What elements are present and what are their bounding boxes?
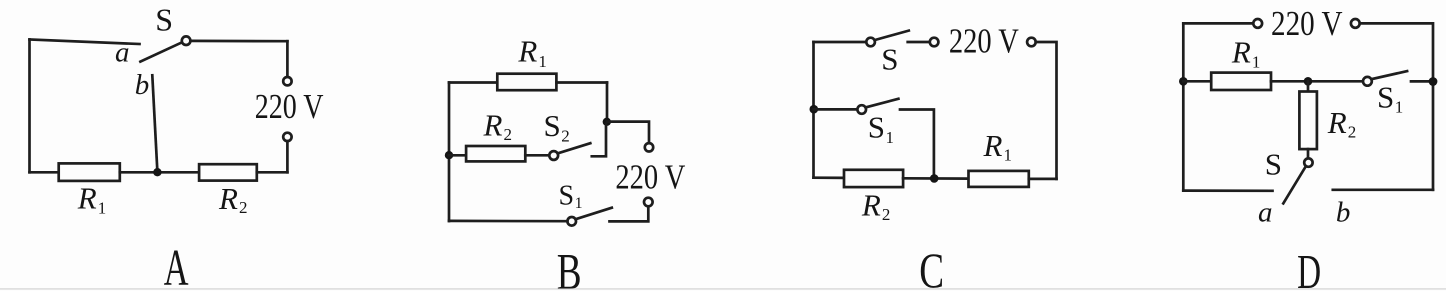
svg-text:A: A [164, 240, 189, 291]
junction dot (D) left [1179, 77, 1188, 86]
switch S (A) blade [140, 42, 182, 61]
source 220V (D) left terminal [1253, 19, 1262, 28]
resistor R2 (B) [466, 146, 525, 161]
wire: B top-left horizontal [449, 81, 497, 84]
switch S (D) pivot [1304, 158, 1312, 166]
junction dot (C) bottom [930, 174, 939, 183]
svg-text:R1: R1 [1231, 34, 1260, 71]
switch S (A) pivot [182, 36, 191, 45]
svg-text:b: b [1336, 197, 1351, 229]
svg-text:220 V: 220 V [255, 88, 324, 126]
resistor R1 (B) [497, 74, 556, 91]
wire: B R2 to S2 segment [525, 154, 549, 157]
wire: A left vertical [28, 40, 31, 173]
source 220V (B) bottom terminal [644, 198, 653, 207]
wire: D R2 top lead [1307, 81, 1310, 91]
wire: C bottom middle segment [903, 177, 968, 180]
source 220V (D) right terminal [1351, 19, 1360, 28]
junction dot (C) on left vertical [810, 105, 819, 114]
wire: C S1 contact bracket down to bottom row [900, 110, 934, 179]
junction dot (A) [153, 168, 161, 176]
wire: A top-left horizontal to contact a [30, 40, 140, 45]
switch S1 (D) blade [1372, 71, 1407, 79]
svg-text:S: S [155, 1, 173, 37]
svg-text:S: S [1265, 146, 1282, 181]
wire: A bottom left segment [30, 171, 59, 174]
junction dot (B) [603, 118, 611, 126]
scan artifact: faint band at bottom edge [0, 288, 1446, 290]
wire: C bottom right segment [1029, 178, 1057, 181]
wire: D middle row centre segment [1271, 80, 1363, 83]
svg-text:R1: R1 [77, 181, 106, 218]
svg-text:a: a [1258, 197, 1273, 229]
junction dot (B) left on vertical [445, 151, 453, 159]
svg-text:S2: S2 [544, 108, 570, 146]
wire: A top-right horizontal [191, 40, 288, 43]
junction dot (D) middle [1304, 77, 1313, 86]
svg-text:a: a [115, 37, 130, 69]
wire: B source bottom to S1 contact [610, 206, 649, 221]
wire: D top-left horizontal [1183, 22, 1253, 25]
source 220V (A) top terminal [283, 77, 291, 85]
switch S1 (C) blade [866, 99, 899, 108]
switch S (C) pivot [866, 38, 875, 47]
wire: D top-right horizontal and right vertical [1360, 23, 1433, 189]
resistor R2 (D) vertical [1299, 92, 1317, 150]
wire: C S contact stub [908, 41, 930, 44]
switch S2 (B) blade [558, 143, 590, 153]
wire: D bottom right segment from contact b [1333, 188, 1433, 191]
svg-text:S: S [881, 41, 898, 76]
source 220V (A) bottom terminal [283, 133, 291, 141]
resistor R1 (A) [59, 163, 120, 181]
svg-text:R1: R1 [983, 128, 1012, 165]
wire: A bottom middle segment [120, 171, 199, 174]
svg-text:220 V: 220 V [1271, 5, 1343, 43]
wire: D middle row left segment [1183, 80, 1211, 83]
svg-text:R2: R2 [861, 188, 890, 224]
junction dot (D) right [1429, 77, 1438, 86]
svg-text:b: b [135, 69, 150, 101]
switch S (D) blade [1283, 166, 1306, 203]
svg-text:220 V: 220 V [949, 22, 1019, 60]
switch S (C) blade [875, 31, 909, 40]
wire: B S2 contact bracket [592, 124, 606, 156]
wire: C top-left horizontal [814, 41, 867, 44]
wire: A right vertical lower [286, 141, 289, 172]
switch S1 (C) pivot [857, 105, 866, 114]
svg-text:S1: S1 [868, 110, 894, 148]
svg-text:R2: R2 [1327, 105, 1356, 142]
svg-text:D: D [1297, 246, 1321, 291]
wire: A middle vertical (contact b) [152, 75, 157, 170]
svg-text:R1: R1 [517, 33, 546, 71]
wire: C top-right horizontal and right vertical [1036, 42, 1057, 179]
wire: D S1 contact stub [1411, 80, 1433, 83]
wire: B R2 row left segment [449, 154, 466, 157]
source 220V (B) top terminal [645, 143, 653, 151]
wire: C S1 row left segment [814, 108, 858, 111]
svg-text:220 V: 220 V [615, 158, 685, 196]
svg-text:S1: S1 [559, 181, 583, 213]
wire: C left vertical [812, 42, 815, 178]
wire: B right vertical of R1 branch [606, 83, 609, 122]
switch S1 (B) blade [576, 208, 612, 220]
svg-text:C: C [919, 243, 944, 291]
source 220V (C) right terminal [1027, 38, 1036, 47]
wire: B top-right horizontal [556, 81, 607, 84]
svg-text:S1: S1 [1377, 80, 1403, 117]
wire: D R2 bottom lead [1307, 149, 1310, 158]
source 220V (C) left terminal [930, 38, 939, 47]
wire: B junction to source top [607, 122, 649, 144]
wire: A right vertical upper [286, 41, 289, 77]
resistor R2 (A) [199, 164, 257, 180]
switch S2 (B) pivot [549, 151, 558, 160]
wire: B bottom horizontal [449, 220, 567, 223]
resistor R2 (C) [844, 170, 903, 187]
wire: D bottom left segment to contact a [1183, 189, 1272, 192]
wire: B left vertical [448, 83, 451, 222]
resistor R1 (D) [1211, 73, 1271, 90]
wire: D left vertical [1182, 23, 1185, 190]
wire: A bottom right segment [257, 171, 288, 174]
wire: C bottom left segment [814, 176, 845, 179]
switch S1 (B) pivot [567, 217, 576, 226]
svg-text:R2: R2 [218, 181, 247, 217]
svg-text:B: B [557, 244, 582, 291]
svg-text:R2: R2 [483, 108, 512, 145]
resistor R1 (C) [969, 171, 1029, 187]
switch S1 (D) pivot [1363, 77, 1372, 86]
